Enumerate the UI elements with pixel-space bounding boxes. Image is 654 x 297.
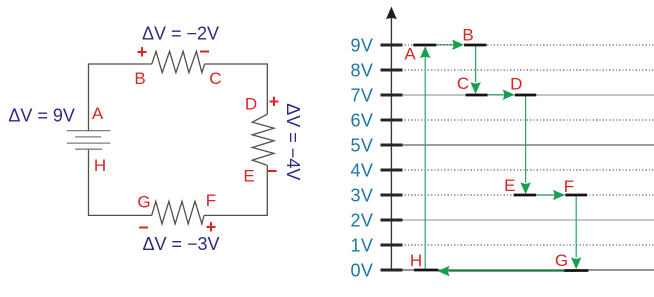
node B label (circuit) [134, 69, 145, 88]
wire right upper segment [266, 63, 268, 114]
polarity - at G (R3 left) [138, 217, 149, 237]
9V dotted level line [391, 44, 654, 46]
svg-text:B: B [462, 26, 473, 45]
node B label (graph) [462, 26, 473, 45]
value label dV = -4V (R2, rotated) [283, 103, 303, 180]
svg-text:ΔV = −3V: ΔV = −3V [142, 234, 219, 254]
battery V1 (4 plates) [67, 131, 111, 150]
svg-text:+: + [137, 42, 148, 62]
axis tick 9V [381, 44, 403, 47]
node E label (circuit) [243, 167, 254, 186]
node C platform (level bar) [466, 94, 488, 97]
wire bottom-left segment [89, 214, 152, 216]
arrow E to F (right, 3V) [537, 190, 565, 201]
voltage axis (vertical) [386, 7, 397, 272]
resistor R1 (top, between B and C) [152, 51, 205, 72]
node H label (graph) [410, 251, 422, 270]
node C label (circuit) [209, 69, 221, 88]
6V dotted level line [391, 119, 654, 121]
axis label 5V [350, 135, 373, 155]
svg-text:A: A [92, 104, 104, 123]
svg-text:D: D [245, 95, 257, 114]
axis tick 0V [381, 269, 403, 272]
svg-text:ΔV = −2V: ΔV = −2V [142, 24, 219, 44]
node C label (graph) [457, 74, 469, 93]
value label dV = 9V (battery) [8, 106, 75, 126]
svg-text:4V: 4V [350, 160, 373, 180]
svg-text:G: G [555, 251, 568, 270]
axis label 1V [350, 235, 373, 255]
2V solid level line [391, 219, 654, 221]
svg-text:D: D [510, 74, 522, 93]
axis label 8V [350, 60, 373, 80]
svg-text:E: E [504, 176, 515, 195]
svg-text:ΔV = 9V: ΔV = 9V [8, 106, 75, 126]
node E platform (level bar) [514, 194, 537, 197]
node B platform (level bar) [464, 44, 486, 47]
polarity + at B (R1 left) [137, 42, 148, 62]
svg-text:8V: 8V [350, 60, 373, 80]
node H platform (level bar) [414, 269, 438, 272]
svg-text:F: F [206, 191, 216, 210]
svg-text:B: B [134, 69, 145, 88]
node A label (circuit) [92, 104, 104, 123]
axis tick 2V [381, 219, 403, 222]
svg-text:−: − [267, 161, 278, 181]
axis label 6V [350, 110, 373, 130]
svg-text:ΔV = −4V: ΔV = −4V [283, 103, 303, 180]
node F label (circuit) [206, 191, 216, 210]
axis label 0V [350, 260, 373, 280]
svg-text:C: C [457, 74, 469, 93]
0V solid level line [391, 269, 654, 271]
5V solid level line [391, 144, 654, 146]
8V dotted level line [391, 69, 654, 71]
svg-text:A: A [404, 45, 416, 64]
node G label (graph) [555, 251, 568, 270]
wire top-left segment [89, 63, 152, 65]
resistor R2 (right, between D and E) [252, 114, 274, 165]
svg-text:H: H [410, 251, 422, 270]
wire left lower segment [88, 149, 90, 216]
svg-text:3V: 3V [350, 185, 373, 205]
axis tick 8V [381, 69, 403, 72]
axis tick 4V [381, 169, 403, 172]
svg-text:1V: 1V [350, 235, 373, 255]
value label dV = -3V (R3) [142, 234, 219, 254]
svg-text:C: C [209, 69, 221, 88]
polarity + at D (R2 top) [269, 91, 280, 111]
arrow D to E (down, 7V to 3V) [520, 96, 531, 194]
axis tick 6V [381, 119, 403, 122]
node F platform (level bar) [565, 194, 587, 197]
wire bottom-right segment [204, 214, 267, 216]
node F label (graph) [564, 177, 574, 196]
wire left upper segment [88, 63, 90, 130]
axis label 7V [350, 85, 373, 105]
wire right lower segment [266, 165, 268, 216]
axis label 2V [350, 210, 373, 230]
node D label (circuit) [245, 95, 257, 114]
polarity - at C (R1 right) [199, 42, 210, 62]
node A platform (level bar) [413, 44, 436, 47]
svg-text:0V: 0V [350, 260, 373, 280]
svg-text:G: G [137, 193, 150, 212]
arrow C to D (right, 7V) [488, 89, 515, 100]
svg-text:6V: 6V [350, 110, 373, 130]
svg-text:−: − [138, 217, 149, 237]
node D platform (level bar) [515, 94, 536, 97]
wire top-right segment [205, 63, 268, 65]
svg-text:7V: 7V [350, 85, 373, 105]
axis tick 5V [381, 144, 403, 147]
axis tick 7V [381, 94, 403, 97]
svg-text:2V: 2V [350, 210, 373, 230]
node G label (circuit) [137, 193, 150, 212]
node E label (graph) [504, 176, 515, 195]
svg-text:H: H [94, 156, 106, 175]
axis label 4V [350, 160, 373, 180]
3V dotted level line [391, 194, 654, 196]
arrow A to B (right, 9V) [437, 40, 465, 51]
node D label (graph) [510, 74, 522, 93]
7V solid level line [391, 94, 654, 96]
1V dotted level line [391, 244, 654, 246]
arrow F to G (down, 3V to 0V) [571, 197, 582, 270]
svg-text:F: F [564, 177, 574, 196]
axis tick 3V [381, 194, 403, 197]
axis tick 1V [381, 244, 403, 247]
axis label 9V [350, 35, 373, 55]
arrow G to H (left, 0V) [438, 266, 577, 277]
node G platform (level bar) [564, 269, 588, 272]
svg-text:E: E [243, 167, 254, 186]
svg-text:5V: 5V [350, 135, 373, 155]
resistor R3 (bottom, between G and F) [152, 201, 204, 224]
polarity + at F (R3 right) [206, 217, 217, 237]
svg-text:−: − [199, 42, 210, 62]
node A label (graph) [404, 45, 416, 64]
node H label (circuit) [94, 156, 106, 175]
svg-text:+: + [206, 217, 217, 237]
arrow B to C (down, 9V to 7V) [470, 46, 481, 94]
svg-text:9V: 9V [350, 35, 373, 55]
polarity - at E (R2 bottom) [267, 161, 278, 181]
arrow H to A (up, 0V to 9V) [420, 46, 431, 269]
svg-text:+: + [269, 91, 280, 111]
value label dV = -2V (R1) [142, 24, 219, 44]
4V dotted level line [391, 169, 654, 171]
axis label 3V [350, 185, 373, 205]
